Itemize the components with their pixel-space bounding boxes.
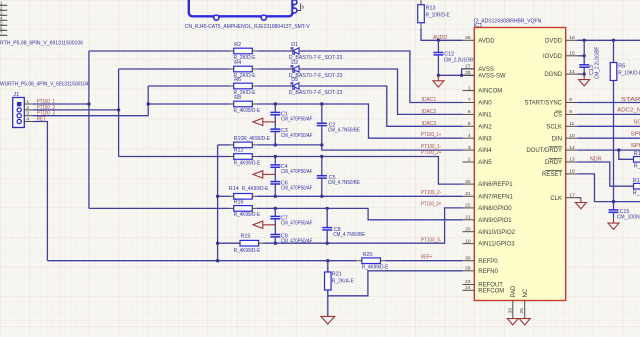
wire C9 lead bottom: [274, 237, 276, 243]
svg-text:CM_4.7N50/BE: CM_4.7N50/BE: [328, 180, 360, 186]
wire DGND pin14: [578, 73, 585, 75]
svg-text:CM_470P50/AF: CM_470P50/AF: [281, 133, 313, 139]
RJ45 shield pin circles bottom: [214, 15, 219, 20]
wire R13 to AVDD pin26: [421, 28, 444, 41]
wire R2 to D1: [257, 50, 292, 52]
svg-text:R_4K99/D-E: R_4K99/D-E: [234, 212, 261, 218]
ground port below R21: [321, 316, 335, 324]
wire stage3 top to pin21: [257, 208, 463, 219]
svg-text:ADC2_N: ADC2_N: [617, 108, 640, 114]
junction C4 top: [274, 155, 277, 158]
svg-text:16: 16: [569, 35, 575, 41]
junction C9 bottom: [274, 242, 277, 245]
capacitor C7 CM_470P50/AF: [270, 215, 280, 217]
svg-text:1: 1: [26, 99, 29, 105]
junction C6 bottom: [274, 195, 277, 198]
svg-text:NC: NC: [523, 288, 529, 297]
svg-text:AVDD: AVDD: [433, 35, 447, 41]
capacitor C12 CM_2.2U10/BF: [433, 52, 443, 54]
RJ45 right-side pin circles: [292, 0, 297, 5]
wire stage3 top left: [89, 207, 230, 209]
svg-text:R8: R8: [234, 95, 241, 101]
svg-text:13: 13: [569, 157, 575, 163]
wire J1.4 RET down: [33, 122, 47, 261]
svg-text:AIN0: AIN0: [478, 101, 492, 107]
svg-text:3: 3: [468, 145, 471, 151]
svg-text:21: 21: [465, 215, 471, 221]
wire C7 lead top: [274, 208, 276, 216]
wire C3 lead bottom: [274, 132, 276, 145]
junction C5 bottom: [320, 195, 323, 198]
svg-text:18: 18: [569, 169, 575, 175]
svg-text:R_4K99/D-E: R_4K99/D-E: [234, 160, 261, 166]
junction R21 top: [326, 259, 329, 262]
capacitor C15 CM_100N: [609, 209, 619, 211]
capacitor C9 CM_470P50/AF: [270, 234, 280, 236]
junction C12 / AVSS: [437, 74, 440, 77]
ground port below C13: [583, 74, 585, 80]
J1 pin stubs and numbers: [24, 103, 33, 105]
wire DIN pin10: [578, 137, 640, 139]
svg-text:CM_2.2U10/BF: CM_2.2U10/BF: [595, 46, 601, 79]
junction C8 top: [326, 207, 329, 210]
junction C1 top: [274, 102, 277, 105]
svg-text:27: 27: [465, 64, 471, 70]
connector J? WURTH 6-pin (clipped at left edge): pin stubs: [0, 4, 7, 6]
svg-text:IOVDD: IOVDD: [543, 54, 563, 60]
wire common vertical x=217.6: [217, 145, 219, 261]
svg-text:15: 15: [569, 51, 575, 57]
svg-text:6: 6: [468, 109, 471, 115]
svg-text:R13: R13: [426, 6, 436, 12]
ground port NC: [524, 318, 526, 320]
svg-text:AIN2: AIN2: [478, 124, 492, 130]
wire DVDD row pin16: [578, 39, 640, 41]
resistor R12 R_4K99/D-E: [234, 154, 253, 160]
svg-text:R2: R2: [234, 42, 241, 48]
svg-text:R_: R_: [633, 191, 640, 197]
wire R4 row left: [119, 68, 230, 70]
svg-text:DRDY: DRDY: [545, 160, 562, 166]
svg-text:AIN1: AIN1: [478, 113, 492, 119]
svg-text:4: 4: [26, 116, 29, 122]
wire C12 lead top: [437, 40, 439, 52]
svg-text:CM_100N: CM_100N: [617, 215, 640, 221]
wire IOVDD pin15: [578, 55, 585, 57]
wire D1 to IDAC pin: [301, 51, 463, 103]
svg-text:PT100_2-: PT100_2-: [421, 190, 441, 196]
wire AVDD into pin 26: [444, 39, 463, 41]
svg-text:REFP0: REFP0: [478, 259, 498, 265]
svg-text:7: 7: [468, 97, 471, 103]
svg-text:8: 8: [569, 97, 572, 103]
wire C8 lead bottom: [326, 230, 328, 243]
wire stage3 bottom to pin22: [263, 208, 462, 243]
svg-text:9: 9: [302, 5, 305, 11]
svg-text:SPI: SPI: [631, 131, 640, 137]
junction PT100_3 / stage1 top: [147, 102, 150, 105]
wire PT100_3 vertical x=148: [147, 86, 149, 116]
svg-text:17: 17: [569, 192, 575, 198]
ground port stage1 (left arrow): [263, 121, 276, 123]
svg-text:20: 20: [465, 226, 471, 232]
ground port PAD: [512, 318, 514, 320]
svg-text:START/SYNC: START/SYNC: [525, 101, 563, 107]
capacitor C4 CM_470P50/AF: [270, 164, 280, 166]
svg-text:NDR: NDR: [590, 156, 602, 162]
svg-text:2: 2: [468, 157, 471, 163]
capacitor C3 CM_470P50/AF: [270, 128, 280, 130]
svg-text:25: 25: [519, 308, 525, 314]
svg-text:R4: R4: [234, 60, 241, 66]
resistor R8 R_4K99/D-E: [234, 101, 253, 107]
wire C5 lead bottom: [321, 178, 323, 196]
resistor R20 R_4K99/D-E: [362, 258, 381, 264]
svg-text:AIN7/REFN1: AIN7/REFN1: [478, 194, 513, 200]
wire stage2 top left: [119, 156, 230, 158]
junction C3 bottom: [274, 143, 277, 146]
wire START/SYNC pin8: [578, 102, 640, 104]
svg-text:D5: D5: [291, 77, 298, 83]
wire C5 lead top: [321, 157, 323, 176]
svg-text:AIN9/GPIO1: AIN9/GPIO1: [478, 218, 512, 224]
svg-text:DGND: DGND: [544, 72, 562, 78]
svg-text:11: 11: [569, 121, 574, 127]
capacitor C5 CM_4.7N50/BE: [317, 175, 327, 177]
svg-text:AIN10/GPIO2: AIN10/GPIO2: [478, 230, 515, 236]
svg-text:PT100_2+: PT100_2+: [421, 150, 441, 156]
junction common/R14: [216, 195, 219, 198]
wire R6 row left: [148, 85, 229, 87]
junction DVDD / C13: [583, 39, 586, 42]
diode D2 D_BAS70-7-F_SOT-23: [293, 66, 299, 72]
svg-text:CM_470P50/AF: CM_470P50/AF: [281, 169, 313, 175]
svg-text:3: 3: [26, 111, 29, 117]
svg-text:28: 28: [465, 70, 471, 76]
wire stage2 bottom to pin31: [257, 195, 463, 197]
wire C13 lead top: [583, 40, 585, 65]
wire J1.3 PT100_3 row: [33, 115, 148, 117]
wire C2 lead bottom: [321, 126, 323, 145]
svg-text:10: 10: [569, 133, 575, 139]
resistor R14 R_4K99/D-E: [234, 194, 253, 200]
capacitor C8 CM_4.7N50/BE: [322, 227, 332, 229]
wire C7-C9 mid: [274, 219, 276, 235]
connector CN RJ45 body: [189, 0, 293, 16]
svg-text:R12: R12: [234, 148, 244, 154]
wire RET/REF row: [47, 260, 357, 262]
wire SCLK pin11: [578, 125, 640, 127]
wire R21 top lead: [327, 261, 329, 272]
svg-text:R1: R1: [634, 151, 640, 157]
wire stage1 bottom left: [218, 144, 230, 146]
svg-text:2: 2: [26, 105, 29, 111]
svg-text:R_4K99/D-E: R_4K99/D-E: [242, 186, 269, 192]
wire R21 bottom to ground: [327, 290, 329, 316]
svg-text:31: 31: [465, 191, 471, 197]
svg-text:AIN8/GPIO0: AIN8/GPIO0: [478, 206, 512, 212]
svg-text:R21: R21: [332, 272, 342, 278]
wire stage1 bottom to pin3: [322, 145, 463, 150]
svg-text:PT100_3-: PT100_3-: [421, 237, 441, 243]
svg-text:AIN6/REFP1: AIN6/REFP1: [478, 182, 513, 188]
svg-text:D2: D2: [291, 60, 298, 66]
svg-text:CM_4.7N50/BE: CM_4.7N50/BE: [333, 232, 365, 238]
wire R4 to D2: [257, 68, 292, 70]
junction RESET / R5 / C15: [612, 200, 615, 203]
wire CLK pin17 stub: [578, 197, 581, 199]
wire stage3 bottom left: [218, 242, 240, 244]
resistor R13 R_10R/D-E: [418, 5, 425, 23]
junction common/R15: [216, 242, 219, 245]
wire R5 lead down to RESET net: [613, 80, 615, 202]
junction PT100_2 / J1.2: [117, 108, 120, 111]
wire R21 bottom to pin29: [328, 271, 463, 296]
wire D5 to IDAC pin: [301, 86, 463, 126]
svg-text:CM_470P50/AF: CM_470P50/AF: [281, 116, 313, 122]
junction AVSS / AVSS-SW: [460, 74, 463, 77]
svg-text:5: 5: [468, 121, 471, 127]
wire C15 lead bottom: [613, 212, 615, 217]
resistor R21 R_2K/A-E: [325, 272, 332, 290]
wire J1.1 PT100_1 row: [33, 103, 89, 105]
svg-text:29: 29: [465, 266, 471, 272]
svg-text:IDAC3: IDAC3: [422, 121, 436, 127]
svg-text:R_4K99/D-E: R_4K99/D-E: [234, 108, 261, 114]
svg-text:PT100_1-: PT100_1-: [421, 144, 441, 150]
svg-text:R6: R6: [234, 77, 241, 83]
svg-text:24: 24: [465, 285, 471, 291]
wire R20 to pin30 REF+: [385, 260, 463, 262]
svg-text:REF+: REF+: [421, 254, 432, 260]
svg-text:R20: R20: [363, 252, 373, 258]
svg-text:DVDD: DVDD: [545, 38, 563, 44]
svg-text:CN_RJ45-CAT5_AMPHENOL_RJE23188: CN_RJ45-CAT5_AMPHENOL_RJE231880413T_SMT-…: [185, 24, 310, 30]
svg-text:R_10K/D-E: R_10K/D-E: [618, 70, 640, 76]
svg-text:WURTH_P5.08_4PIN_V_69131150010: WURTH_P5.08_4PIN_V_691311500104: [0, 82, 89, 88]
junction C2 top: [320, 102, 323, 105]
wire stage2 top to pin32: [257, 157, 463, 185]
wire C2 lead top: [321, 104, 323, 123]
wire hook on RJ45 pin 9: [297, 3, 300, 10]
svg-text:AIN4: AIN4: [478, 148, 492, 154]
svg-text:REFN0: REFN0: [478, 269, 498, 275]
svg-text:9: 9: [569, 109, 572, 115]
wire D2 to IDAC pin: [301, 69, 463, 114]
junction DOUT row / pullup: [617, 148, 620, 151]
resistor R15 R_4K99/D-E: [240, 240, 259, 246]
svg-text:R1: R1: [633, 178, 640, 184]
svg-text:DOUT/DRDY: DOUT/DRDY: [526, 148, 562, 154]
junction AVDD / C12: [437, 39, 440, 42]
svg-text:4: 4: [468, 133, 471, 139]
capacitor C2 CM_4.7N50/BE: [317, 122, 327, 124]
wire R5 lead top: [613, 40, 615, 63]
IC1 bottom pins PAD 33 and NC 25: [512, 301, 514, 319]
diode D1 D_BAS70-7-F_SOT-23: [293, 48, 299, 54]
wire C12 lead bottom: [437, 55, 439, 75]
svg-text:D1: D1: [291, 42, 298, 48]
wire DOUT/DRDY pin12: [578, 149, 640, 151]
svg-text:R_10R/D-E: R_10R/D-E: [426, 13, 450, 19]
capacitor C1 CM_470P50/AF: [270, 111, 280, 113]
svg-text:CM_4.7N50/BE: CM_4.7N50/BE: [328, 127, 360, 133]
svg-text:R_4K99/D-E: R_4K99/D-E: [234, 248, 261, 254]
wire DRDY pin13 to pullup: [578, 162, 634, 186]
junction C5 top: [320, 155, 323, 158]
wire stage1 top to pin4: [257, 104, 463, 138]
resistor R2 R_2K/D-E: [234, 48, 253, 54]
svg-text:R15: R15: [241, 234, 251, 240]
svg-text:AIN5: AIN5: [478, 160, 492, 166]
ground port below C12: [437, 75, 439, 81]
svg-text:R16: R16: [234, 199, 244, 205]
wire stage2 bottom left: [218, 195, 230, 197]
junction PT100_1 / J1.1: [87, 102, 90, 105]
svg-text:R_: R_: [634, 164, 640, 170]
wire PT100_2 vertical x=118: [118, 69, 120, 157]
svg-text:CLK: CLK: [550, 196, 562, 202]
svg-text:AIN3: AIN3: [478, 136, 492, 142]
svg-text:7: 7: [0, 31, 3, 36]
wire to pin 28 AVSS-SW: [462, 74, 475, 76]
junction DGND / C13: [583, 72, 586, 75]
wire CS pin9: [578, 113, 640, 115]
wire C4 lead top: [274, 157, 276, 165]
resistor R10 R_4K99/D-E: [234, 142, 253, 148]
resistor R4 R_2K/D-E: [234, 66, 253, 72]
junction IOVDD / C13 lead: [583, 54, 586, 57]
svg-text:22: 22: [465, 203, 471, 209]
svg-text:R5: R5: [618, 64, 625, 70]
svg-text:AVSS: AVSS: [478, 67, 494, 73]
resistor R6 R_2K/D-E: [234, 83, 253, 89]
wire C1 lead top: [274, 104, 276, 112]
svg-text:26: 26: [465, 35, 471, 41]
svg-text:CM_2.2U10/BF: CM_2.2U10/BF: [444, 58, 477, 64]
svg-text:START: START: [621, 97, 640, 103]
ground port stage3 (left arrow): [263, 224, 276, 226]
svg-text:R_4K99/D-E: R_4K99/D-E: [362, 265, 389, 271]
svg-text:PT100_1+: PT100_1+: [421, 132, 441, 138]
svg-text:DIN: DIN: [552, 136, 562, 142]
ground port below C15: [613, 218, 615, 224]
svg-text:19: 19: [465, 238, 471, 244]
svg-text:12: 12: [569, 145, 575, 151]
svg-text:RESET: RESET: [542, 172, 562, 178]
svg-text:1: 1: [468, 85, 471, 91]
svg-text:SC: SC: [634, 119, 640, 125]
svg-text:CI_ADS124S08IRHBR_VQFN: CI_ADS124S08IRHBR_VQFN: [474, 19, 542, 25]
svg-text:PT100_3+: PT100_3+: [421, 202, 441, 208]
wire C13 lead bottom: [583, 67, 585, 74]
wire RESET pin18 net: [578, 174, 640, 202]
wire C15 lead top: [613, 202, 615, 210]
svg-text:SPI: SPI: [631, 143, 640, 149]
ground port CLK: [580, 198, 582, 203]
IC1 right pin stubs, numbers and names: [566, 39, 578, 41]
wire C6 lead bottom: [274, 184, 276, 196]
wire PT100_1 vertical x=89: [88, 51, 90, 208]
svg-text:CM_470P50/AF: CM_470P50/AF: [281, 220, 313, 226]
svg-text:23: 23: [465, 279, 471, 285]
diode D5 D_BAS70-7-F_SOT-23: [293, 83, 299, 89]
wire C4-C6 mid: [274, 167, 276, 181]
svg-text:14: 14: [569, 69, 575, 75]
wire J1.2 PT100_2 row: [33, 109, 119, 111]
svg-text:R_2K/A-E: R_2K/A-E: [332, 279, 354, 285]
svg-text:AVSS-SW: AVSS-SW: [478, 73, 506, 79]
svg-text:CM_470P50/AF: CM_470P50/AF: [281, 186, 313, 192]
svg-text:REFCOM: REFCOM: [478, 288, 504, 294]
svg-text:30: 30: [465, 255, 471, 261]
capacitor C13 CM_2.2U10/BF: [579, 64, 589, 66]
svg-text:AINCOM: AINCOM: [478, 89, 502, 95]
junction C8 bottom: [326, 242, 329, 245]
wire R2 row left: [89, 50, 230, 52]
svg-text:AVDD: AVDD: [478, 38, 495, 44]
svg-text:R10: R10: [234, 136, 244, 142]
svg-text:IDAC2: IDAC2: [422, 109, 436, 115]
svg-text:SCLK: SCLK: [546, 124, 562, 130]
svg-text:D_BAS70-7-F_SOT-23: D_BAS70-7-F_SOT-23: [289, 90, 343, 96]
svg-text:URTH_P5.08_6PIN_V_691311500106: URTH_P5.08_6PIN_V_691311500106: [0, 41, 83, 47]
wire stage1 bottom: [257, 144, 322, 146]
wire DOUT pullup branch: [619, 150, 634, 159]
svg-text:33: 33: [507, 308, 513, 314]
junction C2 bottom: [320, 143, 323, 146]
svg-text:AIN11/GPIO3: AIN11/GPIO3: [478, 242, 515, 248]
resistor right-edge pullup 2 (clipped): [634, 183, 640, 189]
wire to pin 27 AVSS: [462, 69, 475, 75]
svg-text:CS: CS: [554, 113, 562, 119]
ground port stage2 (left arrow): [263, 173, 276, 175]
resistor right-edge pullup 1 (clipped): [634, 157, 640, 163]
junction DVDD / R5: [612, 39, 615, 42]
svg-text:32: 32: [465, 179, 471, 185]
svg-text:CM_470P50/AF: CM_470P50/AF: [281, 239, 313, 245]
wire stage1 top left: [148, 103, 229, 105]
svg-text:IC1: IC1: [474, 23, 483, 29]
junction common vertical / REF row: [216, 259, 219, 262]
svg-text:R_4K99/D-E: R_4K99/D-E: [243, 136, 270, 142]
svg-text:PAD: PAD: [511, 285, 517, 298]
svg-text:R14: R14: [229, 186, 239, 192]
resistor R5 R_10K/D-E: [610, 63, 617, 81]
wire C8 lead top: [326, 208, 328, 227]
IC1 left pin stubs, numbers and names: [463, 39, 475, 41]
wire AVSS row: [438, 74, 461, 76]
junction C7 top: [274, 207, 277, 210]
op-amp/ADC IC1 CI_ADS124S08IRHBR_VQFN body: [474, 28, 565, 301]
svg-text:IDAC1: IDAC1: [422, 97, 436, 103]
wire R6 to D5: [257, 85, 292, 87]
capacitor C6 CM_470P50/AF: [270, 181, 280, 183]
resistor R16 R_4K99/D-E: [234, 206, 253, 212]
wire C1-C3 mid: [274, 115, 276, 129]
